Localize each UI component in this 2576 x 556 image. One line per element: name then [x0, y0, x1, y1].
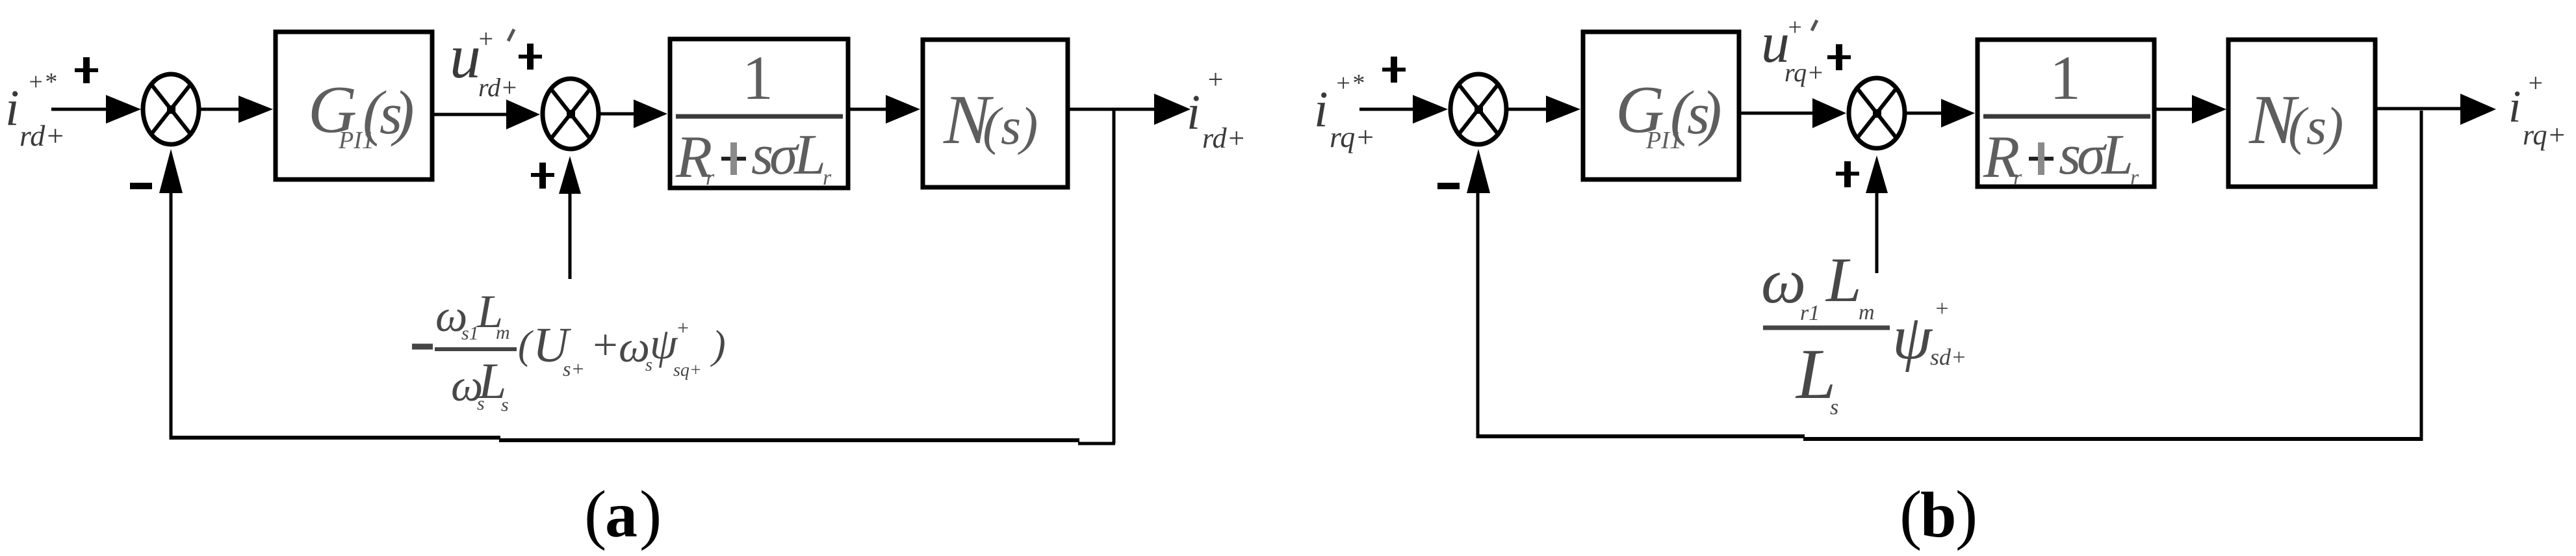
block G_PI1(s) (a) — [276, 32, 432, 179]
plus sign at first summer input (a) — [75, 68, 98, 72]
svg-text:rd+: rd+ — [19, 119, 65, 152]
wire input to summer 1 (b) — [1359, 108, 1418, 111]
svg-text:r: r — [706, 166, 715, 190]
svg-text:+: + — [1206, 65, 1224, 95]
svg-text:s: s — [2306, 98, 2326, 155]
node label u+'_rq+ (b) — [1761, 12, 1824, 87]
svg-text:sq+: sq+ — [673, 360, 702, 380]
wire S1 to block G (b) — [1508, 108, 1549, 111]
plus sign at lower input of S2 (b) — [1836, 172, 1859, 176]
plus sign at lower input of S2 (a) — [531, 173, 554, 177]
summing junction S2 (a) — [543, 79, 599, 149]
svg-text:s: s — [1001, 98, 1021, 155]
svg-text:1: 1 — [742, 43, 773, 113]
node input label i+*_rq+ (b) — [1314, 70, 1375, 153]
svg-text:ψ: ψ — [1892, 302, 1933, 373]
feedback up-arrowhead into S1 (a) — [159, 149, 183, 193]
svg-text:i: i — [1187, 85, 1200, 140]
svg-text:): ) — [1698, 78, 1722, 147]
feedback bottom wire segment 2 (a) — [499, 438, 1079, 442]
output wire from N(s) (b) — [2377, 107, 2463, 111]
arrowhead into N(s) (a) — [886, 95, 920, 124]
block N(s) (a) — [923, 40, 1068, 187]
svg-text:ω: ω — [1761, 246, 1806, 317]
block 1/(Rr+s sigma Lr) (a) — [670, 39, 848, 188]
fraction bar inside block (a) — [676, 114, 843, 119]
output arrowhead (a) — [1154, 94, 1191, 125]
feedback bottom wire segment 3 (a) — [1078, 442, 1115, 445]
svg-text:i: i — [2508, 82, 2521, 132]
svg-text:+*: +* — [27, 68, 57, 96]
summing junction S1 (a) — [143, 74, 199, 144]
svg-text:+: + — [1786, 14, 1803, 41]
svg-text:rd+: rd+ — [478, 73, 518, 102]
svg-text:rq+: rq+ — [1784, 58, 1824, 87]
arrowhead into summer 2 (a) — [506, 99, 540, 129]
output wire from N(s) (a) — [1070, 108, 1157, 111]
svg-text:r: r — [2130, 166, 2139, 190]
vertical wire from expression to S2 (b) — [1875, 188, 1879, 273]
block 1/(Rr+s sigma Lr) (b) — [1977, 40, 2154, 187]
svg-text:m: m — [1859, 300, 1875, 324]
svg-text:s: s — [1830, 395, 1838, 419]
arrowhead into summer 1 (b) — [1413, 95, 1448, 124]
feedback tap riser (a) — [1113, 109, 1116, 443]
feedback up-arrowhead into S1 (b) — [1467, 149, 1490, 193]
feedback bottom wire segment 1 (b) — [1476, 434, 1805, 438]
svg-text:rq+: rq+ — [1330, 120, 1375, 153]
arrowhead into block G (a) — [238, 96, 273, 123]
minus of expression (a) — [412, 344, 433, 350]
svg-text:r: r — [823, 166, 832, 190]
arrowhead into summer 2 (b) — [1812, 98, 1846, 128]
svg-text:i: i — [1314, 81, 1328, 137]
svg-text:1: 1 — [2050, 43, 2081, 113]
plus sign above summer 2 (b) — [1827, 55, 1851, 59]
prime tick on u (b) — [1812, 20, 1817, 31]
svg-text:+: + — [590, 320, 620, 369]
plus sign above summer 2 (a) — [519, 55, 542, 59]
svg-text:): ) — [639, 477, 662, 551]
wire block to N(s) (a) — [848, 108, 888, 111]
wire summer 2 to block 1/(Rr+s sigma Lr) (a) — [600, 113, 641, 116]
feedback bottom wire segment 2 (b) — [1803, 437, 2423, 441]
wire summer 2 to block 1/(Rr+s sigma Lr) (b) — [1907, 112, 1947, 115]
wire block to N(s) (b) — [2154, 108, 2194, 111]
svg-text:): ) — [710, 323, 726, 367]
svg-text:+: + — [477, 24, 495, 53]
svg-text:m: m — [496, 322, 510, 343]
svg-text:rq+: rq+ — [2523, 119, 2566, 151]
svg-text:L: L — [2100, 124, 2133, 187]
svg-text:s: s — [501, 394, 509, 416]
wire block G to summer 2 (b) — [1741, 112, 1817, 115]
compensation expression (b) — [1761, 245, 1966, 419]
svg-text:r: r — [2013, 166, 2022, 190]
arrowhead into block 1/(Rr+s sigma Lr) (a) — [634, 99, 667, 128]
compensation expression (a) — [412, 285, 726, 416]
svg-text:sd+: sd+ — [1930, 344, 1966, 370]
minus sign at feedback input of S1 (b) — [1437, 183, 1460, 189]
svg-text:rd+: rd+ — [1202, 122, 1246, 154]
arrowhead into N(s) (b) — [2192, 95, 2226, 124]
svg-text:a: a — [605, 479, 638, 551]
feedback left vertical wire (b) — [1476, 187, 1480, 438]
block G_PI1(s) (b) — [1583, 32, 1739, 179]
wire S1 to block G (a) — [201, 108, 242, 111]
feedback bottom wire segment 1 (a) — [170, 436, 500, 440]
svg-text:): ) — [391, 78, 415, 147]
svg-text:): ) — [2323, 96, 2343, 155]
svg-text:): ) — [1955, 477, 1977, 551]
up-arrowhead into S2 (a) — [559, 156, 581, 194]
node output label i+_rd+ (a) — [1187, 65, 1246, 154]
svg-text:s1: s1 — [461, 323, 479, 344]
plus inside block denominator (b) — [2029, 157, 2054, 161]
svg-text:(: ( — [584, 477, 606, 551]
svg-text:(: ( — [518, 323, 534, 367]
fraction bar of expression (a) — [435, 347, 517, 351]
plus inside block denominator (a) — [721, 157, 746, 161]
svg-text:L: L — [793, 124, 826, 187]
arrowhead into block 1/(Rr+s sigma Lr) (b) — [1941, 99, 1975, 127]
svg-text:+: + — [2527, 68, 2544, 98]
block N(s) (b) — [2228, 40, 2375, 187]
fraction bar inside block (b) — [1983, 114, 2150, 119]
svg-text:): ) — [1018, 96, 1038, 155]
svg-text:+: + — [1934, 295, 1950, 321]
up-arrowhead into S2 (b) — [1866, 155, 1888, 193]
summing junction S1 (b) — [1450, 74, 1506, 144]
svg-text:r1: r1 — [1800, 301, 1820, 325]
svg-text:u: u — [450, 21, 481, 91]
svg-text:+: + — [676, 316, 690, 339]
summing junction S2 (b) — [1849, 78, 1905, 148]
arrowhead into block G (b) — [1546, 96, 1580, 123]
arrowhead into summer 1 (a) — [106, 95, 141, 124]
svg-text:i: i — [5, 79, 19, 136]
svg-text:+*: +* — [1335, 70, 1364, 97]
fraction bar of expression (b) — [1763, 326, 1890, 330]
wire block G to summer 2 (a) — [434, 113, 511, 116]
wire input to summer 1 (a) — [51, 108, 110, 111]
vertical wire from expression to S2 (a) — [569, 189, 572, 279]
svg-text:s+: s+ — [563, 357, 585, 380]
prime tick on u (a) — [508, 29, 514, 41]
node output label i+_rq+ (b) — [2508, 68, 2566, 151]
output arrowhead (b) — [2460, 94, 2496, 125]
node input label i+*_rd+ (a) — [5, 68, 65, 152]
node label u+'_rd+ (a) — [450, 21, 518, 102]
svg-text:b: b — [1920, 479, 1957, 551]
minus sign at feedback input of S1 (a) — [130, 183, 152, 189]
feedback tap riser (b) — [2420, 111, 2423, 441]
plus sign at first summer input (b) — [1382, 68, 1406, 72]
svg-text:(: ( — [1900, 477, 1922, 551]
svg-text:L: L — [1825, 245, 1862, 315]
feedback left vertical wire (a) — [170, 187, 173, 440]
